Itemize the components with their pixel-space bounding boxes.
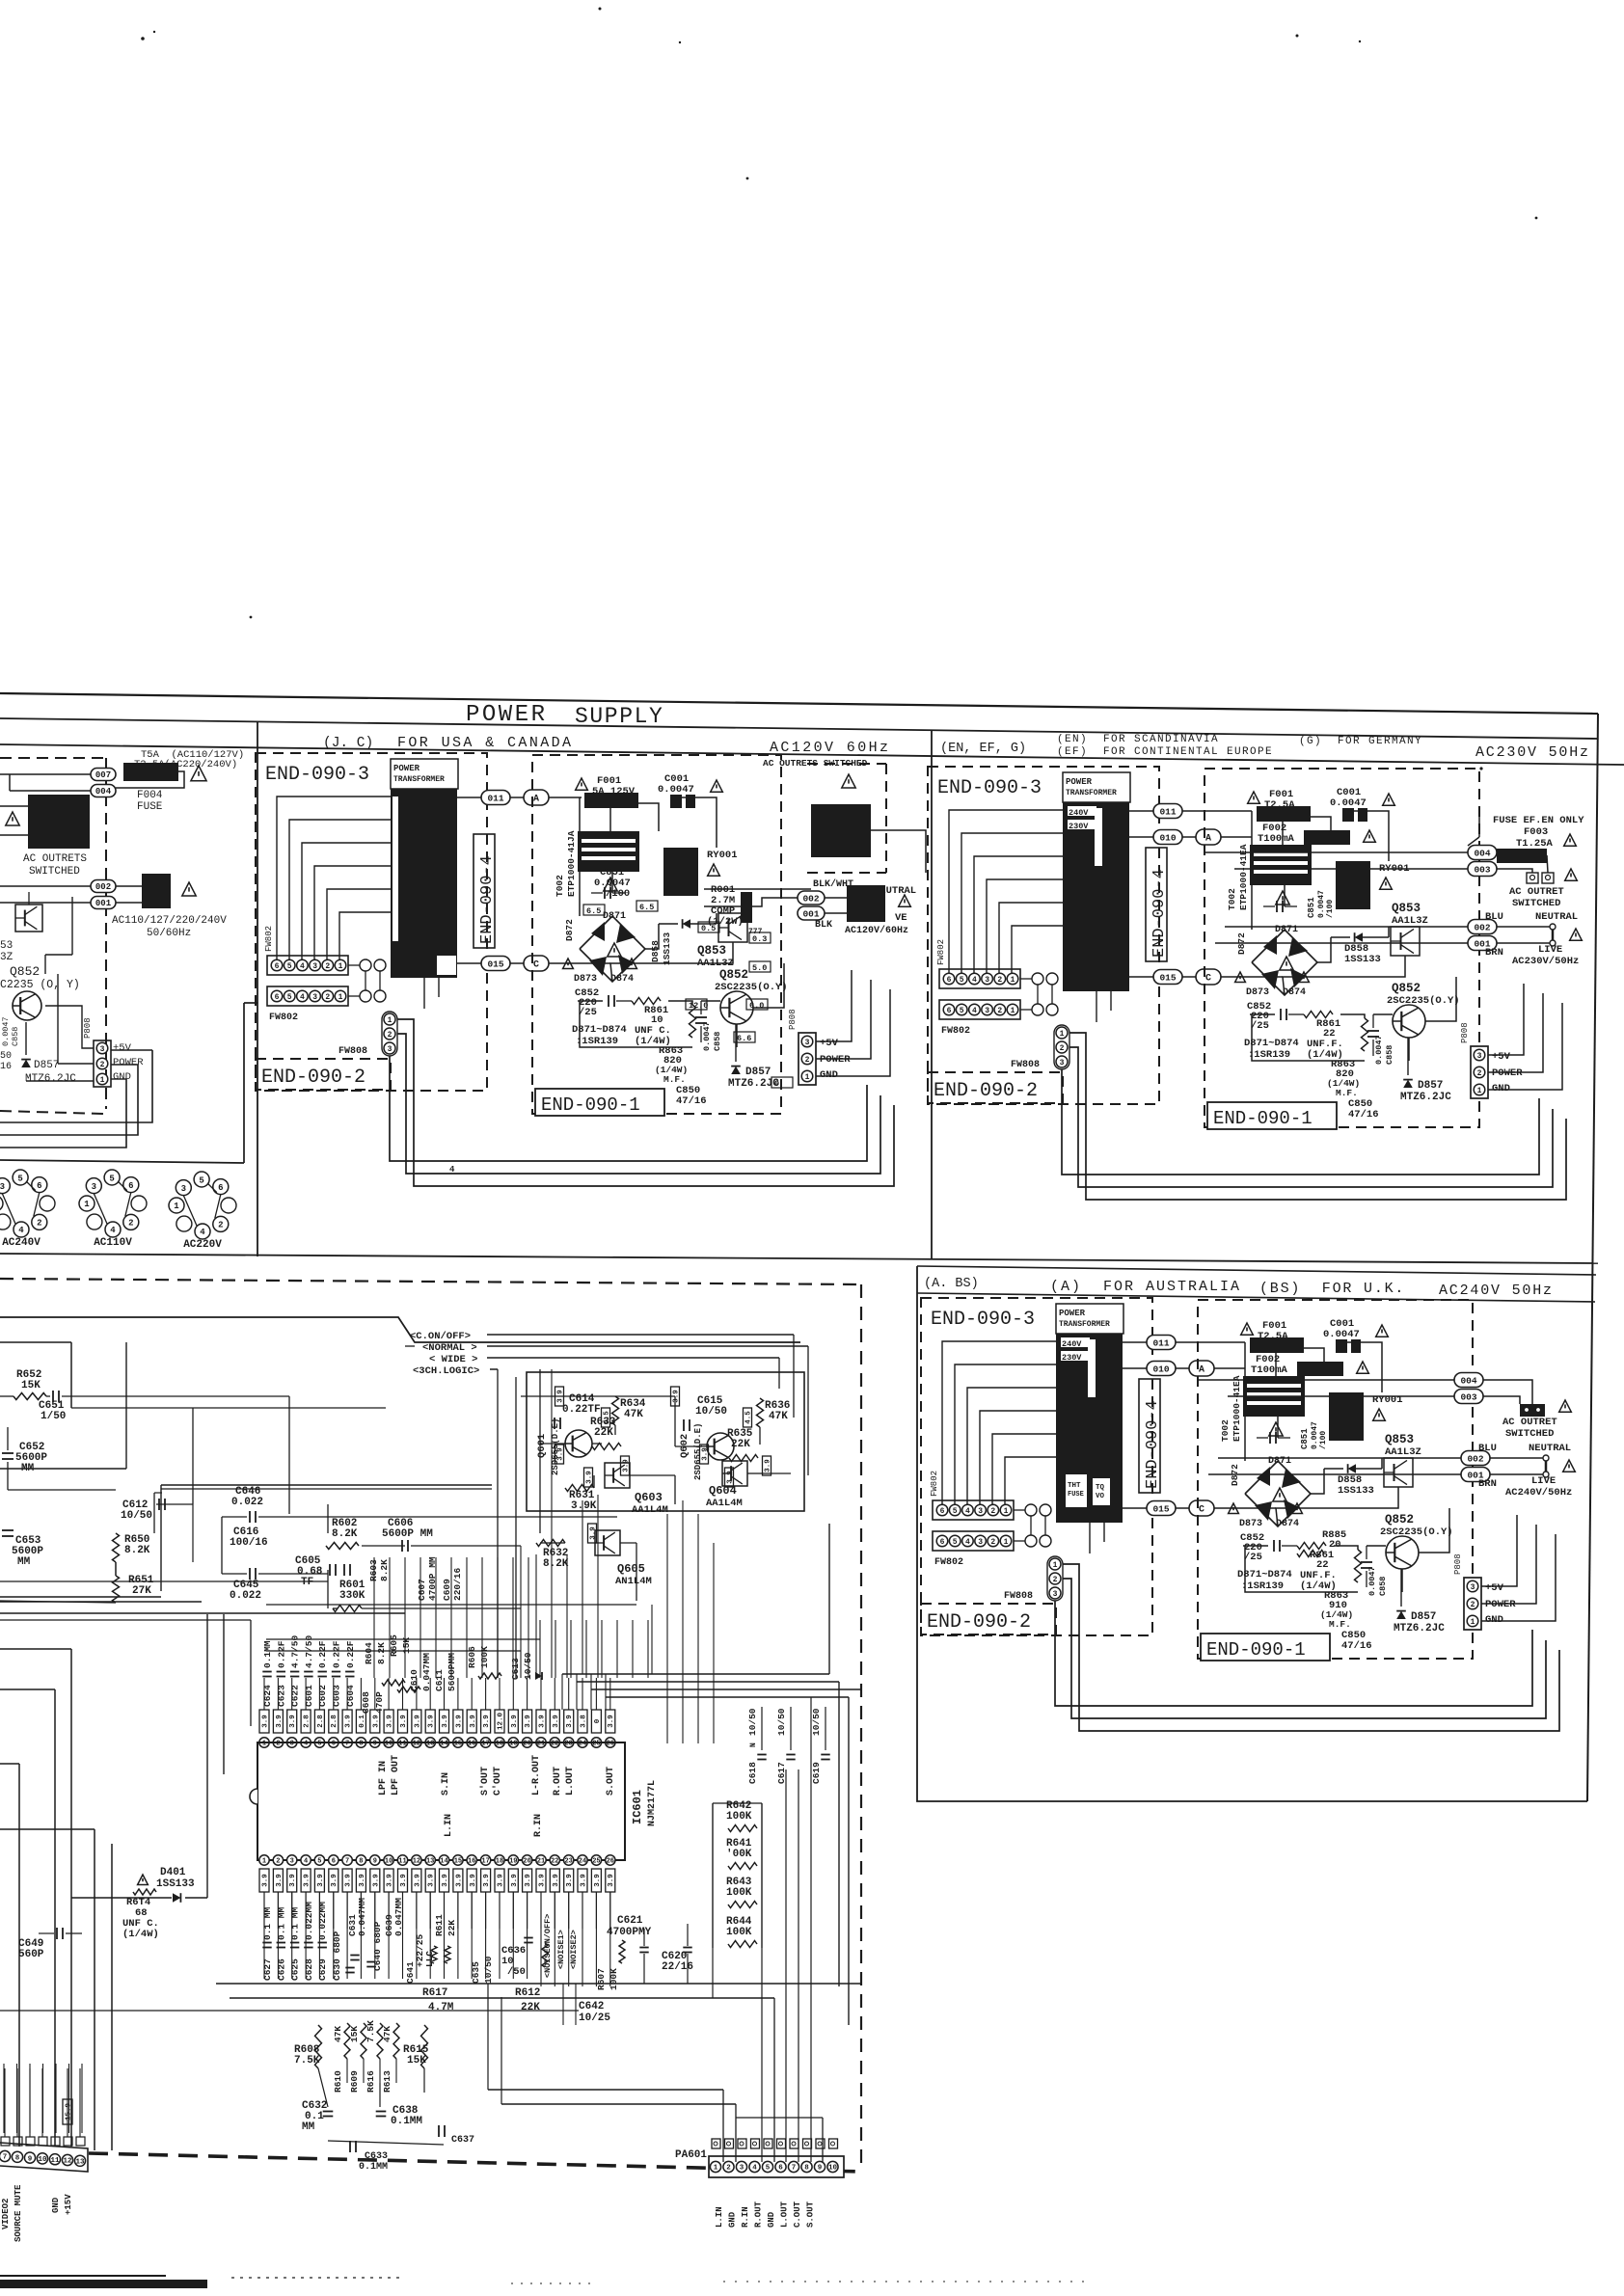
svg-text:3.9: 3.9 [608,1874,615,1887]
svg-text:R610: R610 [333,2070,343,2093]
svg-text:5: 5 [317,1858,321,1866]
wire main hv rails jc [609,797,611,831]
svg-text:6: 6 [332,1741,336,1748]
warning triangle bridge jc [608,943,621,957]
resistor R643 [728,1902,757,1908]
dashed box END-090-1 abs [1198,1300,1473,1659]
svg-text:3.9: 3.9 [765,1459,772,1472]
svg-text:2: 2 [325,993,330,1002]
wire 002 to block [116,885,142,887]
svg-text:MM: MM [302,2121,315,2133]
svg-text:MTZ6.2JC: MTZ6.2JC [1400,1092,1451,1103]
svg-text:11: 11 [398,1858,406,1866]
wires long top-right buses to right border [562,1673,829,1675]
capacitor C614 symbol [554,1418,555,1429]
svg-text:END-090-2: END-090-2 [261,1067,365,1089]
svg-text:Q853: Q853 [697,944,726,958]
svg-text:011: 011 [1159,806,1176,817]
svg-text:0.0047: 0.0047 [1374,1035,1384,1065]
capacitor C632 symbol [323,2111,334,2113]
svg-text:< WIDE >: < WIDE > [429,1354,477,1365]
svg-text:10/50: 10/50 [695,1406,727,1418]
node 010 abs [1147,1362,1176,1376]
svg-text:Q852: Q852 [719,968,748,982]
svg-text:1: 1 [1004,1538,1009,1547]
svg-text:100K: 100K [726,1927,752,1938]
svg-text:22K: 22K [447,1920,457,1936]
svg-text:26: 26 [607,1741,614,1748]
wire line under POWER SUPPLY title [0,718,1598,739]
resistor R602 [326,1543,359,1550]
warning triangles near bridge en [1235,972,1246,983]
svg-text:10: 10 [828,2165,838,2173]
svg-text:N: N [749,1742,758,1747]
svg-text:AC110V: AC110V [94,1237,132,1249]
svg-text:C621: C621 [617,1915,643,1927]
left connector box [0,2143,88,2172]
svg-text:2.8: 2.8 [304,1715,311,1728]
capacitor C858 symbol en [1367,1030,1379,1032]
dashed box END-090-2 jc [256,1059,391,1090]
svg-text:AC220V: AC220V [183,1239,222,1251]
capacitor C652 symbol [2,1452,14,1454]
svg-text:5: 5 [953,1538,958,1547]
svg-text:1: 1 [100,1076,105,1085]
transformer T002 body en [1250,845,1312,885]
svg-text:3.8: 3.8 [581,1715,588,1728]
svg-text:9: 9 [28,2155,33,2163]
connector P808 jc [798,1033,816,1085]
resistor R863 jc [690,1005,696,1038]
svg-text:2.8: 2.8 [331,1715,338,1728]
svg-text:6: 6 [947,976,952,985]
svg-text:3.9K: 3.9K [571,1500,597,1512]
svg-text:6: 6 [128,1181,133,1191]
wire relay feeds [0,805,28,807]
svg-text:3.9: 3.9 [594,1874,602,1887]
svg-text:4.7/50: 4.7/50 [304,1634,314,1668]
wire box around Q601 Q602 cluster [527,1372,804,1511]
svg-text:22: 22 [551,1741,558,1748]
zener D857 en [1403,1080,1413,1088]
label box END-090-1 jc [535,1089,664,1116]
svg-text:S.OUT: S.OUT [606,1767,616,1796]
transistor Q605 [595,1530,620,1555]
svg-text:5: 5 [287,962,292,971]
node 004 abs [1454,1373,1483,1388]
svg-text:4: 4 [300,993,305,1002]
svg-text:1: 1 [1011,976,1015,985]
wire P808 nets en [1488,984,1524,1055]
svg-text:5: 5 [960,1007,964,1015]
warning triangle RY001 en [1380,878,1393,889]
fuse F002 body en [1304,830,1350,845]
svg-text:C608: C608 [361,1691,371,1714]
svg-text:19: 19 [509,1741,517,1748]
svg-text:MTZ6.2JC: MTZ6.2JC [1394,1623,1445,1634]
svg-text:3.9: 3.9 [455,1715,463,1728]
wire transformer secondary drop jc [423,978,425,1009]
svg-text:<C.ON/OFF>: <C.ON/OFF> [410,1331,471,1342]
wire main hv rails abs [1275,1342,1277,1376]
svg-text:POWER: POWER [820,1054,851,1066]
svg-text:ETP1000-41EA: ETP1000-41EA [1238,844,1249,910]
svg-text:END-090-1: END-090-1 [541,1094,640,1116]
svg-text:2: 2 [37,1219,41,1229]
transistor Q853 abs [1384,1458,1413,1487]
wires descending to left connector [3,2064,5,2133]
resistor R634 [612,1396,619,1425]
relay block AC outlets jc [811,804,871,857]
svg-text:015: 015 [1152,1503,1169,1514]
svg-text:MTZ6.2JC: MTZ6.2JC [25,1073,76,1085]
wire RY001 to plug jc [871,830,926,873]
wire abs panel top line [917,1266,1596,1275]
svg-text:3: 3 [978,1538,983,1547]
svg-text:TRANSFORMER: TRANSFORMER [393,775,445,784]
svg-text:FUSE: FUSE [1068,1491,1084,1499]
svg-text:IC601: IC601 [631,1790,644,1824]
svg-text:3: 3 [100,1045,105,1054]
svg-text:3.9: 3.9 [345,1874,353,1887]
svg-text:2: 2 [997,1007,1002,1015]
svg-text:003: 003 [1460,1391,1476,1402]
connector FW808 en [1056,1027,1068,1039]
svg-text:L.IN: L.IN [715,2206,724,2228]
bridge rectifier D871-D874 jc [580,916,645,982]
svg-text:3: 3 [290,1741,294,1748]
svg-text:(BS) FOR U.K.: (BS) FOR U.K. [1259,1281,1405,1297]
svg-text:SWITCHED: SWITCHED [29,866,80,878]
svg-text:POWER: POWER [1485,1599,1516,1610]
svg-text:3: 3 [1471,1583,1475,1592]
resistor R651 [113,1576,120,1603]
svg-text:P808: P808 [83,1017,93,1039]
svg-text:3.9: 3.9 [525,1874,532,1887]
transformer T801 black body abs [1056,1334,1123,1523]
svg-text:3: 3 [181,1184,186,1194]
svg-text:C851: C851 [1307,897,1316,918]
svg-text:4.5: 4.5 [604,1411,611,1424]
svg-text:230V: 230V [1069,822,1089,831]
svg-text:NEUTRAL: NEUTRAL [1529,1443,1571,1454]
svg-text:GND: GND [1492,1083,1510,1094]
svg-text:5600PMM: 5600PMM [447,1653,457,1691]
wires transformer primary nest jc [277,797,391,964]
svg-text:18: 18 [496,1858,503,1866]
page speck [141,37,145,41]
svg-text:4: 4 [965,1507,970,1516]
svg-text:POWER: POWER [1066,777,1093,787]
svg-text:C611: C611 [434,1669,445,1691]
capacitor symbols c618 c617 c619 [757,1754,766,1756]
svg-text:C'OUT: C'OUT [492,1767,503,1796]
svg-text:1SS133: 1SS133 [1338,1485,1374,1497]
svg-text:13: 13 [75,2159,85,2167]
svg-text:FW808: FW808 [338,1046,367,1057]
svg-text:3: 3 [92,1182,96,1192]
bottom small marks [231,2277,405,2279]
svg-text:2: 2 [990,1538,995,1547]
svg-text:2: 2 [990,1507,995,1516]
svg-text:4: 4 [965,1538,970,1547]
svg-text:L-R.OUT: L-R.OUT [531,1755,542,1796]
capacitor C651 symbol [52,1391,54,1402]
svg-text:5: 5 [317,1741,321,1748]
svg-text:0.047MM: 0.047MM [357,1898,367,1936]
svg-text:+5V: +5V [113,1042,132,1054]
svg-text:47/16: 47/16 [676,1095,707,1107]
svg-text:ETP1000-41EA: ETP1000-41EA [1232,1375,1242,1442]
svg-text:16: 16 [0,1062,12,1072]
svg-text:C642: C642 [579,2001,604,2012]
transistor Q852 jc [720,991,753,1024]
capacitor C852 symbol en [1280,1009,1282,1020]
svg-text:5.0: 5.0 [752,963,767,973]
svg-text:2: 2 [726,2165,731,2173]
svg-text:16: 16 [468,1858,475,1866]
warning triangle F002 abs [1357,1362,1369,1373]
wire abs title underline [917,1293,1595,1302]
bottom black bar [0,2280,207,2288]
svg-text:FUSE: FUSE [137,801,163,813]
resistor R001 body jc [741,892,752,923]
svg-text:AC OUTRET: AC OUTRET [1502,1417,1557,1428]
svg-text:6: 6 [940,1507,945,1516]
svg-text:END-090-4: END-090-4 [1144,1400,1162,1489]
svg-text:3.9: 3.9 [498,1874,505,1887]
svg-text:R.OUT: R.OUT [754,2201,764,2228]
svg-text:(G) FOR GERMANY: (G) FOR GERMANY [1299,736,1422,747]
svg-text:1: 1 [338,962,343,971]
svg-text:3.9: 3.9 [727,1471,735,1484]
svg-text:0.022: 0.022 [230,1590,261,1602]
svg-text:M.F.: M.F. [1336,1088,1358,1098]
svg-text:M.F.: M.F. [1329,1619,1351,1630]
svg-text:2: 2 [1471,1601,1475,1609]
svg-text:1: 1 [388,1016,392,1025]
svg-text:8.2K: 8.2K [124,1545,150,1556]
transistor Q852 en [1393,1005,1425,1038]
wire audio inner box top [0,1317,800,1342]
svg-text:004: 004 [1460,1375,1476,1386]
svg-text:0.022: 0.022 [231,1497,263,1508]
svg-text:50: 50 [0,1051,12,1062]
warning triangle bridge abs [1273,1488,1286,1501]
resistor R601 [333,1606,362,1612]
svg-text:3.9: 3.9 [483,1874,491,1887]
svg-text:7: 7 [3,2154,8,2162]
svg-text:POWER: POWER [1059,1309,1086,1318]
svg-text:002: 002 [802,893,819,904]
svg-text:14: 14 [440,1858,447,1866]
transformer T801 label POWER TRANSFORMER en [1063,772,1130,802]
wire to 004 [10,790,91,792]
svg-text:FW802: FW802 [934,1557,963,1568]
svg-text:END-090-3: END-090-3 [931,1309,1035,1331]
wire verticals right of D401 loop [206,1614,208,1898]
resistor R615 [421,2025,428,2068]
capacitor C852 symbol jc [608,995,609,1007]
svg-text:0.0047: 0.0047 [1,1016,11,1046]
capacitor C001 body abs [1336,1339,1347,1353]
svg-text:3.9: 3.9 [525,1715,532,1728]
transformer T801 label POWER TRANSFORMER abs [1056,1304,1123,1334]
svg-text:T002: T002 [1227,888,1237,910]
svg-text:12.0: 12.0 [498,1713,505,1731]
node 002 en [1468,920,1497,934]
svg-text:3.9: 3.9 [400,1874,408,1887]
IC601 bottom pins [259,1855,269,1865]
transformer T801 black body jc [391,789,457,978]
svg-text:T002: T002 [1220,1419,1231,1442]
capacitor C858 symbol abs [1361,1561,1372,1563]
resistor R631 [565,1485,594,1492]
labels bottom nets R617 R612 with values [415,2003,444,2005]
svg-text:/100: /100 [1319,1431,1328,1449]
dashed box END-090-1 en [1204,769,1479,1127]
svg-text:3.9: 3.9 [400,1715,408,1728]
warning small R614 [138,1875,149,1885]
ac plug block jc [847,885,885,922]
svg-text:R.OUT: R.OUT [553,1767,563,1796]
svg-text:4: 4 [449,1165,455,1175]
svg-text:8: 8 [804,2165,809,2173]
svg-text:AC120V 60Hz: AC120V 60Hz [770,740,890,756]
wire left panel supply loops [45,1006,94,1048]
node 001 abs [1461,1468,1490,1482]
resistor R863 abs [1355,1550,1362,1582]
svg-text:3.9: 3.9 [317,1874,325,1887]
svg-text:47K: 47K [333,2026,343,2042]
svg-text:C624: C624 [262,1685,273,1707]
svg-text::1SR139: :1SR139 [576,1036,618,1047]
svg-text:011: 011 [1152,1337,1169,1348]
node 015 en [1153,970,1182,985]
svg-text:1/50: 1/50 [41,1411,66,1422]
svg-text:9: 9 [373,1741,377,1748]
svg-text:3.9: 3.9 [359,1874,366,1887]
svg-text:TQ: TQ [1096,1484,1105,1492]
node 015 abs [1147,1501,1176,1516]
svg-text:3.9: 3.9 [304,1874,311,1887]
svg-text:6: 6 [778,2165,783,2173]
svg-text:3.9: 3.9 [442,1874,449,1887]
svg-text:D857: D857 [34,1060,59,1071]
svg-text:1: 1 [338,993,343,1002]
label box END-090-4 vertical abs [1139,1379,1160,1493]
svg-text:VO: VO [1096,1493,1105,1500]
svg-text:AC230V 50Hz: AC230V 50Hz [1475,744,1590,761]
wires audio upper-left mesh [0,1395,14,1397]
resistor R608 [315,2025,322,2068]
svg-text:16: 16 [468,1741,475,1748]
dashed box END-090-3 jc [256,753,487,1091]
dashed box END-090-1 jc [532,755,781,1114]
svg-text:0.1MM: 0.1MM [262,1640,273,1668]
svg-text:Q852: Q852 [10,964,40,979]
wires 002/001 jc [825,897,847,899]
wire abs panel box [917,1266,1587,1801]
svg-text:P808: P808 [1460,1022,1470,1043]
svg-text:C633: C633 [365,2151,388,2162]
svg-text:17: 17 [481,1858,489,1866]
wire P808 nets abs [1481,1515,1517,1586]
fuse F003 body en [1497,849,1547,863]
svg-text:FW802: FW802 [264,926,274,952]
svg-text:END-090-1: END-090-1 [1213,1108,1313,1129]
svg-text:13: 13 [426,1741,434,1748]
svg-text:6.6: 6.6 [737,1034,751,1043]
svg-text:3.9: 3.9 [372,1874,380,1887]
page speck [1296,35,1299,38]
svg-text:3: 3 [1053,1590,1058,1599]
capacitor C637 symbol [438,2125,440,2137]
svg-text:1: 1 [174,1202,179,1211]
svg-text:3.9: 3.9 [539,1874,547,1887]
wire left panel inner box bottom [0,1160,244,1163]
svg-text:3: 3 [290,1858,294,1866]
svg-text:NEUTRAL: NEUTRAL [1535,911,1578,923]
fuse F001 body jc [584,793,638,808]
svg-text:010: 010 [1152,1364,1169,1374]
svg-text:AA1L4M: AA1L4M [632,1504,668,1516]
svg-text:3.9: 3.9 [387,1874,394,1887]
svg-text::1SR139: :1SR139 [1241,1580,1284,1592]
svg-text:(EN, EF, G): (EN, EF, G) [940,742,1026,756]
svg-text:0.1: 0.1 [359,1715,366,1728]
svg-text:0.22TF: 0.22TF [562,1404,601,1416]
svg-text:24: 24 [579,1741,586,1748]
svg-text:C607: C607 [417,1579,427,1601]
svg-text:3: 3 [978,1507,983,1516]
dashed box END-090-2 abs [921,1604,1056,1634]
svg-text:3Z: 3Z [0,952,14,963]
svg-text:S.OUT: S.OUT [806,2201,816,2228]
svg-text:L.IN: L.IN [444,1814,454,1837]
resistor R863 en [1362,1018,1368,1051]
svg-text:(A) FOR AUSTRALIA: (A) FOR AUSTRALIA [1050,1279,1241,1295]
svg-text:F003: F003 [1524,826,1548,838]
svg-text:7: 7 [792,2165,797,2173]
resistor R614 symbol [133,1889,156,1895]
svg-text:47K: 47K [624,1409,643,1420]
svg-text:END-090-2: END-090-2 [927,1611,1031,1634]
svg-text:GND: GND [767,2211,776,2228]
svg-text:<NOISEON/OFF>: <NOISEON/OFF> [543,1914,553,1978]
svg-text:12: 12 [63,2158,72,2166]
wire to 002/001 [0,885,91,887]
svg-text:FW802: FW802 [941,1026,970,1037]
svg-text:22: 22 [551,1858,558,1866]
svg-text:10/50: 10/50 [121,1510,152,1522]
svg-text:4: 4 [200,1228,205,1237]
svg-text:777: 777 [748,928,763,936]
svg-text:3.9: 3.9 [581,1874,588,1887]
resistor R642 [728,1825,757,1832]
warning triangle C001 en [1383,794,1395,805]
svg-text:015: 015 [487,959,503,969]
wire from A to fuse row en [1252,793,1264,811]
svg-text:3.9: 3.9 [590,1526,598,1540]
zener D857 jc [731,1067,741,1074]
svg-text:10/50: 10/50 [811,1708,822,1736]
svg-text:0.022MM: 0.022MM [304,1902,314,1940]
svg-text:LPF OUT: LPF OUT [391,1755,401,1796]
wire right vertical rails audio [636,1601,1601,1678]
node 001 en [1468,936,1497,951]
svg-text:6: 6 [940,1538,945,1547]
